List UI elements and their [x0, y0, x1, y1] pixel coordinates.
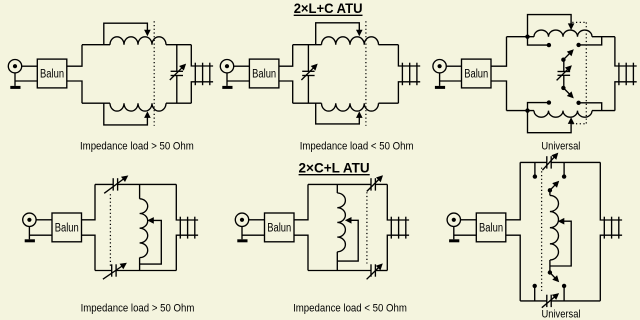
svg-text:Balun: Balun — [252, 69, 276, 81]
svg-text:Universal: Universal — [541, 140, 580, 152]
wire balun to bottom rail — [82, 235, 96, 270]
switch S4 lever — [548, 270, 552, 274]
inductor L9 — [550, 195, 559, 260]
gang line L1-L2 — [153, 21, 155, 126]
wire to switch contact A top — [534, 162, 536, 174]
coax connector J1 — [8, 59, 21, 72]
balun T3 — [462, 59, 492, 88]
wire bottom rail right — [551, 300, 600, 302]
balun T1 — [37, 59, 67, 88]
gang line C6-C7 — [366, 192, 368, 263]
wire bottom rail left — [95, 270, 112, 272]
variable capacitor C8 — [546, 156, 548, 168]
svg-text:Balun: Balun — [267, 222, 291, 234]
feedline bars to antenna — [401, 63, 403, 85]
wire top rail to feedline — [176, 184, 198, 220]
svg-text:2×C+L ATU: 2×C+L ATU — [299, 161, 370, 176]
wire top rail left — [520, 161, 547, 163]
switch contact A bottom — [533, 284, 537, 288]
wire contact B bottom to output — [579, 103, 602, 111]
wire bottom rail right — [379, 102, 399, 104]
wire top rail right — [375, 183, 387, 185]
svg-text:Universal: Universal — [542, 309, 581, 320]
ground — [222, 86, 232, 89]
wire top rail to feedline — [600, 162, 622, 220]
wire lever to capacitor C3 — [563, 60, 565, 72]
feedline bars to antenna — [194, 63, 196, 85]
wire top rail to feedline — [398, 45, 420, 66]
roller tap of L4 — [316, 103, 360, 124]
svg-text:Balun: Balun — [40, 69, 64, 81]
wire shield to balun — [227, 80, 249, 82]
switch S3 lever — [548, 188, 552, 192]
wire top rail to feedline — [191, 45, 213, 66]
switch contact A top — [533, 174, 537, 178]
wire top rail right — [551, 161, 600, 163]
switch contact B top — [562, 174, 566, 178]
wire bottom rail to feedline — [398, 82, 420, 103]
wire bottom rail left — [308, 270, 371, 272]
svg-text:Balun: Balun — [479, 222, 503, 234]
wire shield to balun — [242, 234, 265, 236]
wire capacitor C3 to lever S2 — [563, 75, 565, 88]
wire bottom rail to feedline — [191, 82, 213, 103]
roller tap of L7 — [147, 217, 154, 224]
svg-text:Balun: Balun — [55, 222, 79, 234]
ground — [237, 239, 247, 242]
wire balun to bottom rail — [279, 81, 293, 103]
wire top rail left — [95, 183, 113, 185]
feedline bars to antenna — [603, 217, 605, 239]
roller tap of L6 — [528, 111, 572, 133]
node rail-tap junction bottom — [525, 108, 529, 112]
switch contact B bottom — [576, 101, 580, 105]
variable capacitor C7 — [370, 264, 372, 276]
inductor L6 bottom — [534, 111, 592, 118]
inductor L7 — [140, 199, 148, 258]
switch S1 lever — [561, 58, 565, 62]
wire shield to ground — [226, 73, 228, 86]
wire bottom rail left — [82, 102, 110, 104]
wire top rail left — [82, 44, 110, 46]
wire bottom rail right — [166, 102, 191, 104]
wire inductor L9 to bottom lever — [549, 260, 551, 273]
switch contact A top — [547, 43, 551, 47]
inductor L8 — [337, 193, 345, 252]
inductor L3 top — [322, 37, 379, 45]
wire lever to inductor L9 — [549, 190, 551, 195]
variable capacitor C5 — [111, 264, 113, 276]
wire bottom rail to feedline — [615, 82, 637, 111]
gang bracket L5-L6 — [572, 21, 586, 23]
feedline bars to antenna — [618, 63, 620, 85]
wire inductor L8 to bottom rail — [336, 252, 338, 271]
wire balun to bottom rail — [67, 81, 82, 103]
wire center pin to balun — [461, 219, 477, 221]
wire balun to top rail — [67, 45, 82, 66]
wire balun to bottom rail — [491, 81, 507, 111]
wire top rail to feedline — [615, 37, 637, 66]
wire top rail right — [592, 36, 615, 38]
wire center pin to balun — [446, 65, 461, 67]
ground — [435, 86, 445, 89]
node rail-tap junction top — [525, 35, 529, 39]
wire shield to ground — [241, 227, 243, 240]
wire top rail right — [118, 183, 177, 185]
balun T2 — [249, 59, 279, 88]
gang line C8-C9 — [541, 168, 543, 293]
wire shield to ground — [28, 227, 30, 240]
svg-text:2×L+C ATU: 2×L+C ATU — [294, 1, 363, 16]
gang line C4-C5 — [109, 194, 111, 266]
wire to switch contact A bottom — [528, 103, 549, 111]
wire shield to balun — [15, 80, 37, 82]
wire balun to top rail — [82, 184, 96, 219]
wire balun to top rail — [491, 37, 507, 66]
balun T5 — [265, 213, 295, 242]
wire bottom rail right — [375, 270, 387, 272]
svg-text:Impedance load < 50 Ohm: Impedance load < 50 Ohm — [293, 302, 407, 314]
wire capacitor C2 to bottom rail — [307, 76, 309, 104]
switch contact B top — [576, 43, 580, 47]
ground — [25, 239, 35, 242]
coax connector J3 — [433, 59, 446, 72]
roller tap of L2 — [104, 103, 148, 125]
wire bottom rail left — [520, 300, 547, 302]
wire contact B top to output — [579, 37, 602, 45]
wire shield to ground — [453, 227, 455, 240]
ground — [449, 239, 459, 242]
wire bottom rail left — [293, 102, 322, 104]
inductor L2 bottom — [110, 103, 166, 111]
wire bottom rail left — [507, 110, 535, 112]
wire balun to top rail — [506, 162, 520, 219]
wire center pin to balun — [22, 65, 38, 67]
balun T4 — [52, 213, 82, 242]
wire bottom rail to feedline — [176, 235, 198, 270]
variable capacitor C4 — [112, 178, 114, 190]
wire top rail to capacitor C1 — [176, 45, 178, 72]
wire bottom rail to feedline — [600, 235, 622, 301]
variable capacitor C1 — [171, 70, 183, 72]
wire balun to bottom rail — [506, 235, 520, 301]
gang line L3-L4 — [365, 21, 367, 126]
wire top rail left — [507, 36, 535, 38]
wire inductor L7 to bottom rail — [139, 258, 141, 271]
variable capacitor C6 — [370, 178, 372, 190]
roller tap of L1 — [104, 23, 148, 45]
wire top rail to inductor L7 — [139, 184, 141, 198]
roller tap of L3 — [316, 23, 360, 45]
feedline bars to antenna — [179, 217, 181, 239]
svg-text:Balun: Balun — [464, 69, 488, 81]
coax connector J5 — [235, 213, 248, 226]
coax connector J4 — [23, 213, 36, 226]
wire top rail right — [379, 44, 399, 46]
wire top rail to capacitor C2 — [307, 45, 309, 72]
inductor L5 top — [534, 30, 592, 37]
wire to switch contact B top — [563, 162, 565, 174]
roller tap of L5 — [528, 15, 572, 37]
wire center pin to balun — [249, 219, 265, 221]
inductor L1 top — [110, 37, 166, 45]
wire shield to balun — [454, 234, 477, 236]
wire top rail left — [293, 44, 322, 46]
wire shield to ground — [439, 73, 441, 86]
wire top rail to feedline — [387, 184, 409, 220]
wire shield to balun — [440, 80, 462, 82]
wire capacitor C1 to bottom rail — [176, 76, 178, 104]
wire center pin to balun — [36, 219, 52, 221]
wire shield to ground — [14, 73, 16, 86]
roller tap of L9 — [558, 218, 565, 225]
coax connector J6 — [447, 213, 460, 226]
inductor L4 bottom — [322, 103, 379, 111]
wire top rail left — [308, 183, 371, 185]
balun T6 — [476, 213, 506, 242]
variable capacitor C9 — [546, 295, 548, 307]
svg-text:Impedance load > 50 Ohm: Impedance load > 50 Ohm — [81, 302, 195, 314]
svg-text:Impedance load > 50 Ohm: Impedance load > 50 Ohm — [80, 141, 194, 153]
wire balun to bottom rail — [294, 235, 308, 270]
wire top rail right — [166, 44, 191, 46]
switch contact A bottom — [547, 100, 551, 104]
wire contact B bottom to rail — [563, 288, 565, 301]
variable capacitor C3 — [558, 71, 571, 73]
variable capacitor C2 — [302, 70, 314, 72]
feedline bars to antenna — [390, 217, 392, 239]
wire shield to balun — [29, 234, 52, 236]
wire to switch contact A top — [528, 37, 549, 45]
wire balun to top rail — [294, 184, 308, 219]
coax connector J2 — [220, 59, 233, 72]
switch contact B bottom — [562, 284, 566, 288]
wire top rail to inductor L8 — [336, 184, 338, 193]
wire center pin to balun — [234, 65, 250, 67]
ground — [10, 86, 20, 89]
wire contact A bottom to rail — [534, 288, 536, 301]
wire bottom rail right — [116, 270, 176, 272]
wire bottom rail to feedline — [387, 235, 409, 270]
wire balun to top rail — [279, 45, 293, 66]
wire bottom rail right — [592, 110, 615, 112]
svg-text:Impedance load < 50 Ohm: Impedance load < 50 Ohm — [300, 141, 414, 153]
roller tap of L8 — [345, 217, 352, 224]
switch S2 lever — [561, 86, 565, 90]
